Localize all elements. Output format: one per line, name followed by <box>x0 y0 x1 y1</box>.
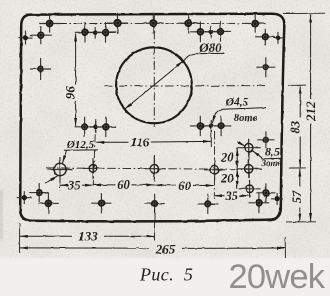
hole D3 <box>143 156 165 182</box>
svg-text:133: 133 <box>78 229 98 244</box>
dim 60 first <box>93 184 116 186</box>
hole C2 <box>90 121 102 133</box>
extension line top right <box>283 12 325 14</box>
dim Ø80 leader <box>125 61 184 109</box>
svg-text:Рис. 5: Рис. 5 <box>139 264 193 284</box>
hole F1 <box>257 131 274 148</box>
centerline column x248 <box>248 139 251 199</box>
hole B7 <box>210 21 231 42</box>
hole A4 <box>178 13 199 34</box>
svg-text:20: 20 <box>220 172 234 186</box>
dim 57 <box>299 169 301 187</box>
hole B1 <box>30 26 52 44</box>
svg-text:Ø4,5: Ø4,5 <box>225 97 249 109</box>
centerline column x154 (below circle) <box>153 155 155 180</box>
centerline circle vertical <box>153 16 155 128</box>
centerline row D <box>46 168 262 170</box>
hole G2 <box>38 193 59 214</box>
hole Ø80 (big circle) <box>116 47 192 123</box>
hole R3 <box>239 180 261 198</box>
centerline row A <box>43 22 262 24</box>
svg-text:3отв: 3отв <box>260 158 281 168</box>
hole B3 <box>89 27 101 39</box>
hole G3 <box>17 191 32 204</box>
hole R2 <box>237 160 261 178</box>
centerline circle horizontal <box>104 85 268 88</box>
hole B6 <box>205 26 217 38</box>
dim 35 left <box>60 184 67 186</box>
elbow A4-B5 <box>188 22 200 24</box>
dim 20 upper <box>236 148 238 169</box>
svg-text:60: 60 <box>117 178 130 192</box>
svg-text:Ø80: Ø80 <box>198 40 222 55</box>
hole G4 <box>256 183 275 202</box>
extension line bottom right edge <box>284 237 286 258</box>
svg-text:212: 212 <box>303 101 318 122</box>
svg-text:116: 116 <box>131 135 150 150</box>
hole B4 <box>95 22 116 43</box>
svg-text:Ø12,5: Ø12,5 <box>66 139 95 151</box>
hole D1 (Ø12.5) <box>48 157 73 182</box>
hole H1 <box>91 193 111 213</box>
hole A1 <box>39 15 60 33</box>
scan artifact: faint left edge shading <box>0 190 3 240</box>
centerline column x95 <box>93 119 96 186</box>
dim 116 <box>96 141 129 143</box>
panel outline <box>20 14 284 222</box>
extension line bottom left <box>19 223 21 253</box>
extension line x154 <box>154 209 156 241</box>
hole R1 (Ø8.5) <box>237 139 261 157</box>
hole G1 <box>30 183 49 202</box>
centerline row B right <box>194 30 228 32</box>
svg-text:96: 96 <box>63 86 78 100</box>
dim 265 <box>20 247 149 249</box>
hole E2 <box>256 57 275 77</box>
hole C5 <box>205 120 217 132</box>
hole B5 <box>190 22 211 43</box>
svg-text:8,5: 8,5 <box>265 144 280 158</box>
hole C4 <box>190 116 210 136</box>
hole A3 <box>143 13 164 34</box>
svg-text:265: 265 <box>155 241 176 256</box>
dim 20 lower <box>236 169 238 189</box>
extension line bottom right <box>286 221 316 223</box>
hole A5 <box>245 15 266 33</box>
hole C1 <box>75 117 95 137</box>
hole A2 <box>107 12 128 33</box>
extension line mid (83) <box>288 84 306 86</box>
svg-text:60: 60 <box>178 179 191 193</box>
elbow A2-B4 <box>116 23 118 32</box>
centerline row B left <box>77 31 117 34</box>
hole G5 <box>249 192 270 213</box>
hole H3 <box>198 194 218 214</box>
panel bottom edge (thicker) <box>33 220 268 222</box>
hole D2 <box>83 158 104 179</box>
hole edge-left-top <box>19 31 33 45</box>
extension line mid (57) <box>289 167 306 169</box>
dim 35 right <box>214 195 224 197</box>
dim 96 <box>75 34 77 85</box>
hole H2 <box>145 194 165 214</box>
hole D4 <box>204 159 225 180</box>
svg-text:57: 57 <box>290 190 304 203</box>
hole B8 <box>255 29 275 45</box>
hole E1 <box>30 58 51 80</box>
hole B2 <box>75 22 96 43</box>
svg-text:8отв: 8отв <box>234 113 258 124</box>
svg-text:20: 20 <box>220 150 234 164</box>
hole G6 <box>271 193 283 205</box>
svg-text:83: 83 <box>289 121 303 134</box>
hole B9 <box>273 32 284 44</box>
hole C3 <box>96 117 117 138</box>
centerline column x60 <box>59 160 61 191</box>
dim 83 <box>299 86 301 117</box>
dim 60 second <box>154 184 176 186</box>
svg-text:35: 35 <box>67 179 81 193</box>
dim 212 <box>310 15 312 99</box>
dim 133 <box>20 235 72 237</box>
svg-text:20wek: 20wek <box>229 258 326 296</box>
centerline column x214 <box>213 131 215 199</box>
svg-text:35: 35 <box>224 189 238 203</box>
hole C6 <box>211 116 231 136</box>
